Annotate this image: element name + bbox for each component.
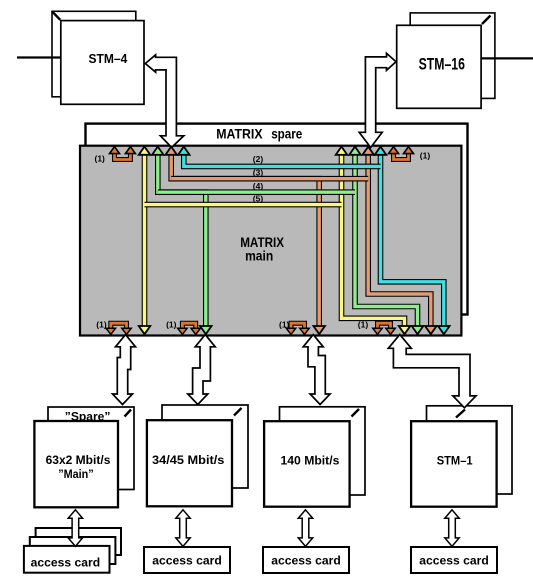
block arrow matrix to 140 group (jog right)	[303, 335, 330, 405]
access card (group 3)	[263, 547, 349, 573]
140 back card	[280, 407, 366, 495]
svg-text:STM–16: STM–16	[419, 55, 465, 73]
wire east line from STM-16	[480, 57, 533, 59]
small double arrow group 4	[445, 510, 459, 547]
wire yellow (5) row	[145, 202, 342, 208]
wire west line into STM-4	[17, 56, 61, 58]
svg-text:(1): (1)	[420, 151, 431, 161]
140 stack tick	[352, 409, 360, 417]
access card (group 2)	[144, 547, 230, 573]
wire green (4) row	[158, 189, 355, 195]
wire orange (3) right riser and stair	[368, 152, 431, 328]
arrowhead cyan top-left	[178, 147, 190, 155]
svg-text:(1): (1)	[166, 320, 177, 330]
arrowhead orange bottom-right	[425, 326, 437, 334]
STM-4 stack tick	[53, 12, 61, 20]
arrowhead yellow bottom-right	[399, 326, 411, 334]
svg-text:(3): (3)	[253, 167, 264, 177]
wire orange (3) row	[171, 176, 368, 182]
svg-text:(1): (1)	[95, 154, 106, 164]
wire green (4) left bend and drop	[158, 152, 206, 328]
wire cyan (2) right riser and stair	[381, 152, 444, 328]
arrowhead orange top-right	[362, 147, 374, 155]
svg-text:140 Mbit/s: 140 Mbit/s	[281, 454, 340, 468]
svg-text:(1): (1)	[279, 320, 290, 330]
arrowhead yellow top-right	[336, 147, 348, 155]
STM-16 stack tick	[482, 16, 491, 25]
arrowhead cyan bottom-right	[438, 326, 450, 334]
arrowhead green top-left	[152, 147, 164, 155]
arrowhead orange bottom-left	[313, 326, 325, 334]
access card stack middle (group 1)	[30, 537, 116, 564]
svg-text:spare: spare	[271, 126, 302, 142]
svg-text:34/45 Mbit/s: 34/45 Mbit/s	[152, 453, 225, 467]
access card (group 4)	[411, 547, 497, 573]
svg-text:(2): (2)	[253, 154, 264, 164]
loopback (1) bottom 1	[111, 323, 127, 330]
STM-1 stack tick	[456, 410, 465, 418]
block arrow STM-4 to matrix (double headed, bent)	[145, 55, 184, 148]
svg-text:access card: access card	[152, 553, 222, 567]
svg-text:(1): (1)	[96, 320, 107, 330]
140 front card	[264, 421, 350, 507]
svg-text:(4): (4)	[253, 181, 264, 191]
wire yellow (5) left vertical	[142, 152, 148, 328]
svg-text:STM–1: STM–1	[437, 454, 473, 468]
access card stack back (group 1)	[36, 528, 121, 555]
svg-text:STM–4: STM–4	[89, 52, 128, 66]
svg-text:access card: access card	[31, 555, 101, 569]
arrowhead green bottom-left	[200, 326, 212, 334]
block arrow STM-16 to matrix (double headed, bent)	[359, 53, 396, 147]
arrowhead green bottom-right	[412, 326, 424, 334]
34/45 back card	[162, 405, 248, 488]
STM-1 back card	[427, 406, 513, 494]
loopback (1) bottom 3	[291, 323, 305, 330]
63x2 front card	[34, 421, 118, 507]
small double arrow group 1	[68, 510, 82, 547]
loopback (1) top-right	[394, 152, 409, 160]
STM-16 back card	[410, 13, 495, 99]
STM-1 front card	[411, 421, 497, 507]
loopback (1) bottom 4	[378, 323, 391, 330]
arrowhead green top-right	[349, 147, 361, 155]
wire yellow (5) right riser and stair	[342, 152, 405, 328]
block arrow matrix to 34/45 group	[188, 335, 215, 405]
svg-text:”Main”: ”Main”	[58, 467, 93, 481]
svg-text:main: main	[245, 248, 273, 264]
34/45 stack tick	[234, 408, 242, 416]
small double arrow group 3	[298, 510, 312, 547]
STM-16 front card	[397, 25, 481, 108]
loopback (1) bottom 2	[182, 323, 195, 330]
loopback (1) top-left	[115, 152, 131, 160]
MATRIX main box	[80, 146, 461, 336]
wire green (4) right riser and stair	[355, 152, 418, 328]
63x2 stack tick	[125, 410, 132, 417]
arrowhead cyan top-right	[375, 147, 387, 155]
MATRIX spare box	[86, 124, 468, 315]
63x2 spare back card	[48, 407, 134, 490]
arrowhead yellow top-left	[139, 147, 151, 155]
svg-text:MATRIX: MATRIX	[216, 126, 263, 142]
block arrow matrix to 63x2 group	[113, 335, 136, 405]
access card front (group 1)	[24, 546, 110, 573]
svg-text:63x2 Mbit/s: 63x2 Mbit/s	[46, 453, 111, 467]
block arrow matrix to STM-1 group (wide jog right)	[388, 335, 476, 408]
STM-4 front card	[61, 21, 144, 105]
arrowhead orange top-left	[165, 147, 177, 155]
STM-4 back card	[52, 11, 136, 97]
arrowhead yellow bottom-left	[139, 326, 151, 334]
svg-text:access card: access card	[419, 553, 489, 567]
svg-text:(1): (1)	[358, 320, 369, 330]
34/45 front card	[147, 420, 232, 506]
wire cyan (2) left bend and row	[184, 152, 381, 166]
wire orange (3) left bend and mid drop	[171, 152, 319, 328]
svg-text:access card: access card	[271, 553, 341, 567]
small double arrow group 2	[176, 510, 190, 547]
svg-text:(5): (5)	[253, 194, 264, 204]
